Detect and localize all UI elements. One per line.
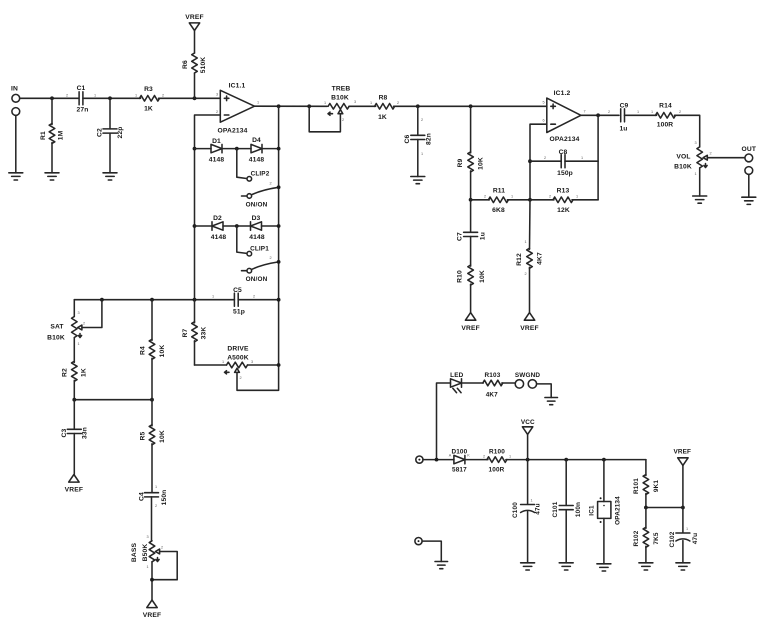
resistor R103 [483, 380, 503, 386]
resistor R7 [194, 300, 196, 323]
svg-text:100R: 100R [657, 122, 674, 129]
wire SAT wiper wrap [82, 300, 102, 328]
diode D100 [454, 455, 465, 463]
svg-text:R6: R6 [182, 60, 189, 69]
svg-text:47u: 47u [535, 503, 542, 514]
resistor R4 [151, 300, 153, 341]
svg-text:IC1: IC1 [589, 505, 596, 516]
resistor R2 [72, 361, 78, 381]
potentiometer SAT B10K [73, 300, 75, 317]
wire IN to C1 [20, 97, 79, 99]
capacitor C3 [73, 400, 75, 430]
svg-text:82n: 82n [426, 133, 433, 145]
wire R2-R5 row [74, 399, 152, 401]
node TREB left junction [307, 104, 311, 108]
wire IC1.1 inverting input to feedback rail [195, 115, 221, 300]
svg-text:1K: 1K [378, 114, 387, 121]
capacitor C4 [145, 493, 159, 497]
wire BASS wiper wrap [152, 552, 177, 580]
node BASS bottom junction [150, 578, 154, 582]
svg-text:D100: D100 [451, 449, 467, 456]
svg-text:3: 3 [216, 93, 218, 97]
potentiometer BASS B50K [149, 541, 155, 562]
svg-text:ON/ON: ON/ON [246, 202, 268, 209]
capacitor C2 [109, 98, 111, 129]
svg-text:OPA2134: OPA2134 [218, 128, 248, 135]
capacitor C102 [682, 508, 684, 533]
svg-text:10K: 10K [479, 270, 486, 283]
svg-text:1: 1 [686, 527, 688, 531]
svg-text:150p: 150p [557, 170, 573, 177]
svg-text:DRIVE: DRIVE [227, 346, 249, 353]
node DRIVE right junction [277, 363, 281, 367]
node SAT wiper junction [100, 298, 104, 302]
node junction R1 [50, 96, 54, 100]
svg-text:R8: R8 [379, 95, 388, 102]
svg-text:B10K: B10K [47, 335, 65, 342]
wire C1 to R3 [83, 97, 141, 99]
svg-text:510K: 510K [200, 57, 207, 74]
capacitor C101 [565, 460, 567, 506]
svg-text:1: 1 [421, 152, 423, 156]
svg-text:B10K: B10K [331, 95, 349, 102]
svg-text:1: 1 [77, 342, 79, 346]
svg-text:1: 1 [212, 295, 214, 299]
svg-text:100n: 100n [575, 502, 582, 517]
potentiometer VOL B10K [697, 147, 703, 168]
svg-text:5: 5 [542, 101, 544, 105]
svg-text:R103: R103 [485, 372, 501, 379]
svg-text:VOL: VOL [676, 154, 690, 161]
svg-text:VREF: VREF [185, 14, 203, 21]
svg-text:VCC: VCC [521, 419, 535, 426]
node R11-R13 junction [528, 198, 532, 202]
svg-text:OUT: OUT [742, 146, 757, 153]
svg-text:R9: R9 [457, 158, 464, 167]
potentiometer DRIVE A500K [195, 364, 227, 366]
svg-text:1: 1 [509, 455, 511, 459]
wire DRIVE wiper wrap [237, 365, 279, 390]
svg-text:2: 2 [269, 182, 271, 186]
connector CLIP2 [237, 149, 247, 179]
svg-text:1: 1 [257, 101, 259, 105]
resistor R13 [530, 199, 554, 201]
svg-text:1M: 1M [58, 130, 65, 140]
node IC1 junction [602, 458, 606, 462]
wire LED to R103 [462, 382, 484, 384]
svg-text:2: 2 [239, 376, 241, 380]
resistor R3 [140, 96, 160, 102]
svg-text:27n: 27n [77, 107, 89, 114]
ground OUT [742, 197, 756, 204]
svg-text:4148: 4148 [249, 234, 265, 241]
ground C6 [411, 177, 425, 184]
svg-text:4K7: 4K7 [486, 392, 498, 399]
svg-text:1: 1 [637, 110, 639, 114]
wire D1 to D4 [222, 148, 251, 150]
node VCC junction [526, 458, 530, 462]
ground VOL [693, 196, 707, 203]
capacitor C1 [79, 92, 83, 105]
power VREF source [682, 465, 684, 507]
svg-text:IC1.2: IC1.2 [554, 90, 571, 97]
svg-text:1: 1 [651, 110, 653, 114]
svg-text:10K: 10K [159, 345, 166, 358]
wire R3 to IC1.1 [159, 97, 221, 99]
svg-text:1: 1 [511, 195, 513, 199]
svg-text:OPA2134: OPA2134 [550, 136, 580, 143]
svg-text:1: 1 [530, 499, 532, 503]
ground IN [9, 173, 23, 180]
svg-text:CLIP2: CLIP2 [251, 171, 270, 178]
svg-text:R13: R13 [557, 188, 570, 195]
potentiometer TREB B10K [328, 104, 349, 110]
svg-text:2: 2 [524, 272, 526, 276]
svg-text:R101: R101 [633, 478, 640, 494]
diode D2 [212, 222, 223, 230]
node C102 junction [681, 506, 685, 510]
svg-text:R7: R7 [182, 328, 189, 337]
resistor R8 [375, 104, 395, 110]
connector IN sleeve [12, 108, 20, 116]
svg-text:IN: IN [11, 86, 18, 93]
LED [451, 379, 462, 387]
wire power rail [506, 459, 646, 461]
capacitor C100 [527, 460, 529, 504]
svg-text:2: 2 [269, 256, 271, 260]
resistor R10 [468, 265, 474, 285]
svg-text:R3: R3 [144, 86, 153, 93]
svg-text:C3: C3 [61, 428, 68, 437]
svg-text:2: 2 [608, 110, 610, 114]
capacitor C7 [470, 200, 472, 232]
diode D3 [251, 222, 262, 230]
svg-text:LED: LED [450, 372, 463, 379]
svg-text:D4: D4 [252, 137, 261, 144]
IC1 power pins box [603, 460, 605, 502]
connector CLIP1 [237, 226, 247, 253]
wire VOL wiper to OUT [707, 157, 745, 159]
svg-text:10K: 10K [478, 157, 485, 170]
svg-text:2: 2 [544, 156, 546, 160]
diode D1 [211, 144, 222, 152]
node R5 top [150, 398, 154, 402]
connector IN tip [12, 94, 20, 102]
svg-text:BASS: BASS [131, 543, 138, 563]
wire IC1.1 out [255, 105, 328, 107]
node IC1.2 out junction [596, 113, 600, 117]
switch ON/ON upper [242, 195, 247, 197]
connector OUT sleeve [745, 167, 753, 175]
ground C101 [559, 563, 573, 570]
svg-text:2: 2 [155, 504, 157, 508]
svg-text:A500K: A500K [227, 355, 249, 362]
wire to D2 [195, 225, 213, 227]
capacitor C9 [621, 109, 625, 122]
svg-text:6: 6 [542, 119, 544, 123]
svg-text:5817: 5817 [452, 467, 467, 474]
svg-text:R5: R5 [140, 431, 147, 440]
capacitor C6 [417, 106, 419, 135]
svg-text:3: 3 [77, 311, 79, 315]
svg-text:7K5: 7K5 [653, 532, 660, 544]
capacitor C8 [528, 159, 532, 163]
svg-text:C5: C5 [233, 287, 242, 294]
svg-text:R102: R102 [633, 530, 640, 546]
resistor R1 [51, 98, 53, 124]
svg-text:100R: 100R [489, 467, 505, 474]
ground R102 [639, 563, 653, 570]
svg-text:10K: 10K [159, 430, 166, 443]
svg-text:1u: 1u [619, 126, 627, 133]
connector OUT tip [745, 154, 753, 162]
svg-text:9K1: 9K1 [653, 480, 660, 492]
node C101 junction [564, 458, 568, 462]
node D1-D4 junction [235, 147, 239, 151]
wire to D1 [195, 148, 212, 150]
svg-text:2: 2 [342, 118, 344, 122]
svg-text:CLIP1: CLIP1 [250, 246, 269, 253]
svg-text:1: 1 [155, 485, 157, 489]
wire tone-line [74, 299, 234, 301]
switch ON/ON lower [242, 270, 247, 272]
power VREF below R10 [465, 313, 475, 321]
node junction R6 [193, 96, 197, 100]
svg-text:4148: 4148 [209, 157, 225, 164]
svg-text:R10: R10 [457, 270, 464, 283]
svg-text:3: 3 [694, 141, 696, 145]
svg-text:2: 2 [483, 455, 485, 459]
wire SWGND to ground [537, 384, 552, 398]
svg-text:R2: R2 [62, 368, 69, 377]
svg-text:33n: 33n [82, 427, 89, 439]
resistor R6 [194, 31, 196, 54]
svg-text:C9: C9 [620, 103, 629, 110]
svg-text:47u: 47u [692, 533, 699, 544]
svg-text:R14: R14 [659, 103, 672, 110]
svg-text:C6: C6 [404, 134, 411, 143]
power VCC [527, 434, 529, 459]
svg-text:2: 2 [397, 101, 399, 105]
svg-text:7: 7 [583, 110, 585, 114]
power VREF top [189, 23, 199, 31]
resistor R12 [529, 200, 532, 250]
node R4 top junction [150, 298, 154, 302]
svg-text:1: 1 [135, 94, 137, 98]
svg-text:R12: R12 [516, 253, 523, 266]
svg-text:VREF: VREF [520, 325, 538, 332]
ground C100 [521, 563, 535, 570]
svg-text:C101: C101 [552, 501, 559, 517]
ground C102 [676, 563, 690, 570]
op-amp IC1.2 [547, 98, 581, 132]
svg-text:OPA2134: OPA2134 [615, 496, 622, 525]
node C3 top [72, 398, 76, 402]
wire C9 to R14 [625, 114, 657, 116]
wire OUT sleeve to ground [748, 174, 750, 197]
node C5 left junction [193, 298, 197, 302]
svg-text:D1: D1 [212, 138, 221, 145]
svg-text:1: 1 [94, 94, 96, 98]
svg-text:C1: C1 [77, 85, 86, 92]
resistor R11 [469, 198, 473, 202]
svg-text:22p: 22p [117, 127, 124, 139]
svg-text:2: 2 [161, 546, 163, 550]
svg-text:C2: C2 [97, 128, 104, 137]
resistor R101 [645, 460, 647, 476]
svg-text:4148: 4148 [249, 157, 265, 164]
resistor R100 [487, 457, 507, 463]
svg-text:2: 2 [216, 110, 218, 114]
resistor R14 [656, 113, 676, 119]
svg-text:4148: 4148 [211, 234, 227, 241]
svg-text:3: 3 [354, 100, 356, 104]
node LED tap junction [435, 458, 439, 462]
wire IC1.2 inverting input [530, 124, 547, 200]
svg-text:C102: C102 [669, 531, 676, 547]
svg-text:R100: R100 [489, 449, 505, 456]
svg-text:C8: C8 [559, 149, 568, 156]
wire R14 to VOL [675, 115, 700, 147]
node junction C2 [108, 96, 112, 100]
wire TREB wiper wrap [309, 106, 340, 132]
svg-text:IC1.1: IC1.1 [229, 83, 246, 90]
wire D2 to D3 [223, 225, 251, 227]
svg-text:ON/ON: ON/ON [246, 276, 268, 283]
wire LED branch [437, 383, 451, 460]
wire D4 to rail [262, 148, 279, 150]
svg-text:2: 2 [709, 152, 711, 156]
svg-text:2: 2 [253, 295, 255, 299]
svg-text:R4: R4 [140, 346, 147, 355]
ground R1 [45, 173, 59, 180]
svg-text:1: 1 [694, 172, 696, 176]
svg-text:3: 3 [146, 535, 148, 539]
svg-text:VREF: VREF [461, 325, 479, 332]
wire jack to D100 [423, 459, 454, 461]
svg-text:D2: D2 [213, 215, 222, 222]
capacitor C5 [234, 293, 238, 306]
svg-text:2: 2 [421, 118, 423, 122]
wire feedback right rail [278, 106, 280, 365]
resistor R9 [470, 106, 472, 153]
svg-text:33K: 33K [201, 327, 208, 340]
svg-text:2: 2 [549, 195, 551, 199]
svg-text:1: 1 [581, 156, 583, 160]
svg-text:C7: C7 [457, 232, 464, 241]
wire R103 to SWGND [502, 382, 515, 384]
diode D4 [251, 144, 262, 152]
node C5 right junction [277, 298, 281, 302]
svg-text:TREB: TREB [332, 86, 351, 93]
ground SWGND [545, 398, 558, 405]
svg-text:4K7: 4K7 [537, 252, 544, 265]
svg-text:VREF: VREF [65, 487, 83, 494]
node R9 junction [469, 104, 473, 108]
svg-text:B10K: B10K [674, 164, 692, 171]
svg-text:C100: C100 [512, 502, 519, 518]
svg-text:2: 2 [162, 94, 164, 98]
svg-text:SAT: SAT [50, 324, 64, 331]
svg-text:R1: R1 [40, 131, 47, 140]
svg-text:2: 2 [679, 110, 681, 114]
power VREF below C3 [69, 475, 79, 483]
resistor R5 [151, 400, 153, 426]
ground C2 [103, 173, 117, 180]
node D-row1 left [193, 147, 197, 151]
svg-text:VREF: VREF [143, 612, 161, 619]
svg-text:1: 1 [370, 101, 372, 105]
connector power jack negative [415, 538, 422, 545]
svg-text:12K: 12K [557, 207, 570, 214]
svg-text:SWGND: SWGND [515, 372, 540, 379]
svg-text:K: K [467, 454, 470, 458]
svg-text:2: 2 [484, 195, 486, 199]
svg-text:3: 3 [251, 360, 253, 364]
wire jack negative to ground [422, 541, 441, 561]
wire D100 to R100 [465, 459, 488, 461]
svg-text:1K: 1K [81, 368, 88, 377]
wire IC1.2 out [581, 114, 619, 116]
node C6 junction [416, 104, 420, 108]
ground IC1 [597, 564, 611, 571]
node R101-R102 junction [644, 506, 648, 510]
svg-text:R11: R11 [493, 188, 505, 195]
wire R8 to IC1.2 [394, 105, 547, 107]
svg-text:C4: C4 [139, 492, 146, 501]
svg-text:1: 1 [222, 360, 224, 364]
svg-text:2: 2 [83, 322, 85, 326]
power VREF below R12 [524, 313, 534, 321]
svg-text:D3: D3 [252, 215, 261, 222]
wire IN sleeve to ground [15, 115, 17, 172]
wire C5 to rail [238, 299, 278, 301]
svg-text:6K8: 6K8 [492, 207, 505, 214]
ground power jack [435, 562, 448, 569]
power VREF below BASS [147, 600, 157, 608]
resistor R102 [645, 508, 647, 529]
op-amp IC1.1 [220, 90, 254, 122]
svg-text:VREF: VREF [673, 449, 691, 456]
wire VREF row [646, 507, 683, 509]
svg-text:150n: 150n [161, 490, 168, 506]
wire D3 to rail [262, 225, 279, 227]
svg-text:1u: 1u [480, 232, 487, 240]
node D2-D3 junction [235, 224, 239, 228]
node D-row2 left [193, 224, 197, 228]
wire feedback rail right [597, 115, 599, 200]
svg-text:2: 2 [66, 94, 68, 98]
svg-text:51p: 51p [233, 309, 245, 316]
svg-text:1K: 1K [144, 106, 153, 113]
connector power jack positive [416, 456, 423, 463]
svg-text:A: A [449, 454, 452, 458]
svg-text:1: 1 [146, 565, 148, 569]
svg-text:B50K: B50K [142, 544, 149, 562]
svg-text:1: 1 [576, 195, 578, 199]
svg-text:1: 1 [324, 101, 326, 105]
svg-text:1: 1 [524, 240, 526, 244]
node feedback right rail top [277, 104, 281, 108]
